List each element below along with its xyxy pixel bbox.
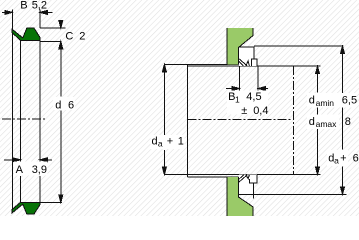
label B1 4,5 with mask xyxy=(227,91,268,115)
shaft axis centerline xyxy=(188,118,292,120)
seal bottom: outline xyxy=(239,183,254,194)
svg-text:+: + xyxy=(340,153,346,165)
svg-text:5,2: 5,2 xyxy=(32,0,47,12)
svg-text:4,5: 4,5 xyxy=(246,91,261,103)
svg-text:d: d xyxy=(309,95,315,107)
dimension B1 extension line left xyxy=(239,66,241,90)
counterface wall bottom outline xyxy=(227,177,253,216)
seal bottom: lip fold hatch lines xyxy=(239,175,247,182)
counterface wall bottom (light green) xyxy=(227,177,253,216)
bore bottom line + extension xyxy=(20,201,62,203)
seal outer top extension line (da+6 top) xyxy=(254,45,344,47)
svg-text:A: A xyxy=(16,164,24,176)
svg-text:6,5: 6,5 xyxy=(342,95,357,107)
label A 3,9 with mask xyxy=(14,162,48,176)
svg-text:6: 6 xyxy=(68,99,74,111)
svg-text:C: C xyxy=(65,30,73,42)
svg-text:d: d xyxy=(309,116,315,128)
svg-text:B: B xyxy=(20,0,27,12)
svg-text:6: 6 xyxy=(353,153,359,165)
centerline of left figure xyxy=(2,118,46,120)
V-ring bottom cross-section profile (green, mirrored) xyxy=(12,202,40,214)
wall bottom edge stub below seal corner xyxy=(253,194,255,198)
dimension B1 extension line right xyxy=(257,66,259,90)
V-ring top cross-section profile (green) xyxy=(12,28,40,40)
dimension B extension line right xyxy=(39,10,41,28)
svg-text:0,4: 0,4 xyxy=(253,105,268,117)
svg-text:2: 2 xyxy=(79,30,85,42)
V-ring seal mounted, top section (white body) xyxy=(239,47,257,66)
svg-text:1: 1 xyxy=(178,136,184,148)
svg-text:amax: amax xyxy=(316,119,338,129)
seal top: lip fold hatch lines xyxy=(239,59,247,66)
svg-text:1: 1 xyxy=(235,94,240,104)
ring seat bottom line xyxy=(188,176,239,178)
svg-text:+: + xyxy=(167,136,173,148)
svg-text:d: d xyxy=(152,136,158,148)
svg-text:a: a xyxy=(158,139,163,149)
svg-text:a: a xyxy=(334,156,339,166)
shaft left edge xyxy=(187,64,189,177)
dimension B line right arrow xyxy=(40,10,53,14)
dimension A line right arrow xyxy=(40,158,52,162)
V-ring seal mounted, bottom section (white body) xyxy=(239,175,257,195)
counterface wall top outline xyxy=(227,28,253,64)
svg-text:amin: amin xyxy=(316,98,335,108)
body left silhouette line xyxy=(19,40,21,162)
svg-text:3,9: 3,9 xyxy=(32,164,47,176)
shaft surface top line + d_amin extension xyxy=(188,65,321,67)
bore top extension line xyxy=(40,40,62,42)
lip silhouette line xyxy=(11,32,13,210)
svg-text:±: ± xyxy=(241,105,247,117)
svg-text:8: 8 xyxy=(345,116,351,128)
dimension B1 left arrow xyxy=(226,87,240,91)
dimension da+1 line with arrows xyxy=(162,64,166,174)
dimension C top extension line xyxy=(40,27,66,29)
bore top line xyxy=(20,39,40,41)
dimension damin/damax line with arrows xyxy=(316,66,320,174)
dimension da+6 line with arrows xyxy=(341,46,345,194)
dimension B extension line left xyxy=(11,10,13,30)
seal top: outline xyxy=(239,47,254,59)
counterface wall top (light green) xyxy=(227,28,253,64)
label damin 6,5 with mask xyxy=(307,93,357,108)
dimension B line left arrow xyxy=(2,10,12,14)
label d 6 with mask xyxy=(53,97,75,110)
seal bottom: V-groove notch xyxy=(246,175,250,179)
seal top: V-groove notch xyxy=(246,61,250,66)
ring seat top line (raised sleeve) xyxy=(164,63,238,65)
dimension C / d vertical line with arrows xyxy=(59,20,63,202)
dimension A line left arrow xyxy=(4,158,20,162)
shaft surface bottom line + extensions xyxy=(164,174,320,176)
svg-text:d: d xyxy=(55,99,61,111)
label da + 1 with mask xyxy=(151,135,185,149)
seal outer bottom extension line (da+6 bottom) xyxy=(254,193,347,195)
body right silhouette line xyxy=(39,40,41,162)
shaft end break centerline (vertical dash-dot) xyxy=(293,66,295,174)
dimension B1 right arrow xyxy=(258,87,268,91)
label da + 6 with mask xyxy=(327,150,348,166)
label damax 8 with mask xyxy=(307,115,339,130)
